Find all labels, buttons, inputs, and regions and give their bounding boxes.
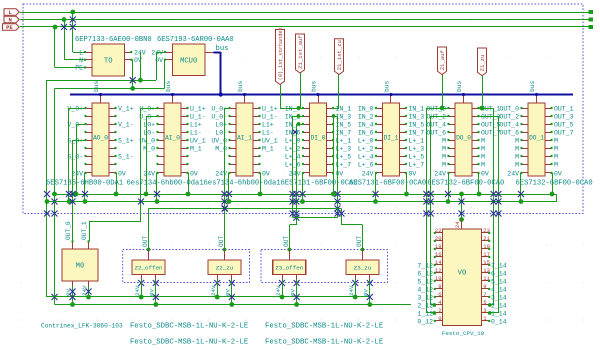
svg-text:U_1+: U_1+ bbox=[190, 105, 206, 112]
svg-text:2_14: 2_14 bbox=[491, 302, 507, 309]
svg-text:L+_3: L+_3 bbox=[409, 145, 425, 152]
svg-text:PE: PE bbox=[75, 65, 83, 72]
svg-text:0V: 0V bbox=[118, 170, 126, 177]
svg-text:V_1+: V_1+ bbox=[118, 105, 134, 112]
svg-text:9: 9 bbox=[483, 283, 486, 290]
svg-text:AI_1: AI_1 bbox=[237, 135, 252, 142]
svg-text:L0+: L0+ bbox=[143, 121, 155, 128]
svg-text:DO_0: DO_0 bbox=[456, 135, 471, 142]
svg-text:OUT_6: OUT_6 bbox=[499, 129, 519, 136]
svg-text:OUT_4: OUT_4 bbox=[499, 121, 519, 128]
svg-text:L+_5: L+_5 bbox=[409, 153, 425, 160]
svg-text:Z1_ist_zu: Z1_ist_zu bbox=[336, 40, 343, 70]
svg-text:2_12: 2_12 bbox=[417, 302, 433, 309]
svg-text:L1-: L1- bbox=[262, 129, 274, 136]
svg-text:6_14: 6_14 bbox=[491, 270, 507, 277]
svg-text:7_14: 7_14 bbox=[491, 262, 507, 269]
svg-text:M: M bbox=[481, 161, 485, 168]
svg-text:M: M bbox=[515, 153, 519, 160]
svg-text:6_12: 6_12 bbox=[417, 270, 433, 277]
svg-text:24V: 24V bbox=[289, 170, 301, 177]
svg-text:N: N bbox=[79, 57, 83, 64]
svg-text:OUT_0: OUT_0 bbox=[499, 105, 519, 112]
svg-text:2: 2 bbox=[438, 307, 441, 314]
svg-text:Z1_ist_auf: Z1_ist_auf bbox=[297, 35, 304, 69]
svg-text:Festo_CPV_10: Festo_CPV_10 bbox=[442, 330, 485, 337]
svg-text:Festo_SDBC-MSB-1L-NU-K-2-LE: Festo_SDBC-MSB-1L-NU-K-2-LE bbox=[130, 339, 248, 347]
svg-text:UV_0: UV_0 bbox=[139, 137, 155, 144]
svg-text:M: M bbox=[554, 153, 558, 160]
svg-text:OUT_6: OUT_6 bbox=[426, 129, 446, 136]
svg-text:M: M bbox=[442, 161, 446, 168]
svg-text:OUT: OUT bbox=[142, 236, 149, 247]
svg-text:M: M bbox=[515, 161, 519, 168]
svg-text:OUT_5: OUT_5 bbox=[554, 121, 574, 128]
svg-text:IN_7: IN_7 bbox=[409, 129, 425, 136]
svg-text:IN_6: IN_6 bbox=[358, 129, 374, 136]
svg-text:0V: 0V bbox=[481, 170, 489, 177]
svg-text:Z2_offen: Z2_offen bbox=[135, 265, 163, 272]
svg-text:24V: 24V bbox=[215, 170, 227, 177]
svg-text:Contrinex_LFK-3060-103: Contrinex_LFK-3060-103 bbox=[41, 323, 123, 330]
svg-text:S_0-: S_0- bbox=[67, 153, 83, 160]
svg-text:24: 24 bbox=[454, 221, 461, 228]
svg-text:M: M bbox=[554, 137, 558, 144]
svg-text:6es7134-6hb00-0da1: 6es7134-6hb00-0da1 bbox=[204, 179, 281, 187]
svg-text:23: 23 bbox=[483, 227, 490, 234]
svg-text:OUT: OUT bbox=[218, 236, 225, 247]
svg-text:24V: 24V bbox=[81, 285, 88, 296]
svg-text:bus: bus bbox=[456, 80, 463, 92]
svg-text:5_14: 5_14 bbox=[491, 278, 507, 285]
svg-text:M: M bbox=[554, 161, 558, 168]
svg-text:Z2_zu: Z2_zu bbox=[216, 265, 233, 272]
svg-text:IN_3: IN_3 bbox=[409, 113, 425, 120]
svg-text:OUT_4: OUT_4 bbox=[426, 121, 446, 128]
svg-text:24V: 24V bbox=[210, 285, 217, 296]
svg-text:OUT_7: OUT_7 bbox=[481, 129, 501, 136]
svg-text:L+_2: L+_2 bbox=[358, 145, 374, 152]
svg-text:bus: bus bbox=[383, 80, 390, 92]
svg-text:21: 21 bbox=[483, 235, 490, 242]
svg-text:6: 6 bbox=[438, 291, 441, 298]
svg-text:L+_0: L+_0 bbox=[358, 137, 374, 144]
svg-text:0_14: 0_14 bbox=[491, 318, 507, 325]
svg-text:24V: 24V bbox=[507, 170, 519, 177]
svg-text:M_0: M_0 bbox=[143, 145, 155, 152]
svg-text:0V: 0V bbox=[289, 289, 296, 296]
svg-text:6EP7133-6AE00-0BN0: 6EP7133-6AE00-0BN0 bbox=[75, 36, 152, 44]
svg-text:TO: TO bbox=[104, 58, 113, 66]
svg-text:M_1: M_1 bbox=[190, 145, 202, 152]
svg-text:M: M bbox=[515, 145, 519, 152]
svg-text:Z1_auf: Z1_auf bbox=[439, 50, 446, 70]
svg-text:4_12: 4_12 bbox=[417, 286, 433, 293]
svg-text:MCU0: MCU0 bbox=[180, 57, 197, 65]
svg-text:L0+: L0+ bbox=[215, 121, 227, 128]
svg-text:0V: 0V bbox=[262, 170, 270, 177]
svg-text:OUT: OUT bbox=[283, 236, 290, 247]
svg-text:V_1-: V_1- bbox=[118, 121, 134, 128]
svg-text:L: L bbox=[79, 49, 83, 56]
svg-text:IN_2: IN_2 bbox=[358, 113, 374, 120]
svg-text:U_1+: U_1+ bbox=[262, 105, 278, 112]
svg-text:M: M bbox=[442, 137, 446, 144]
svg-text:3_12: 3_12 bbox=[417, 294, 433, 301]
svg-text:bus: bus bbox=[237, 80, 244, 92]
svg-text:V0: V0 bbox=[458, 270, 467, 278]
svg-text:5_12: 5_12 bbox=[417, 278, 433, 285]
svg-text:11: 11 bbox=[483, 275, 490, 282]
svg-text:4_14: 4_14 bbox=[491, 286, 507, 293]
svg-text:IN_5: IN_5 bbox=[409, 121, 425, 128]
svg-text:L+_4: L+_4 bbox=[358, 153, 374, 160]
svg-text:OUT: OUT bbox=[356, 236, 363, 247]
svg-text:AO_0: AO_0 bbox=[93, 135, 108, 142]
svg-text:M_0: M_0 bbox=[215, 145, 227, 152]
svg-text:M: M bbox=[515, 137, 519, 144]
svg-text:5: 5 bbox=[483, 299, 486, 306]
svg-text:0V: 0V bbox=[554, 170, 562, 177]
svg-text:Z3_offen: Z3_offen bbox=[275, 265, 303, 272]
svg-text:10: 10 bbox=[435, 275, 442, 282]
svg-text:Festo_SDBC-MSB-1L-NU-K-2-LE: Festo_SDBC-MSB-1L-NU-K-2-LE bbox=[265, 323, 383, 331]
svg-text:DO_1: DO_1 bbox=[529, 135, 544, 142]
svg-text:S_1-: S_1- bbox=[118, 153, 134, 160]
svg-text:N: N bbox=[9, 17, 12, 24]
svg-text:0V: 0V bbox=[149, 289, 156, 296]
svg-text:OUT_2: OUT_2 bbox=[499, 113, 519, 120]
svg-text:L1+: L1+ bbox=[190, 121, 202, 128]
svg-text:12: 12 bbox=[435, 267, 442, 274]
svg-text:0V: 0V bbox=[336, 170, 344, 177]
svg-text:bus: bus bbox=[93, 80, 100, 92]
svg-text:OUT_5: OUT_5 bbox=[481, 121, 501, 128]
svg-text:24V: 24V bbox=[134, 285, 141, 296]
svg-text:UV_1: UV_1 bbox=[262, 137, 278, 144]
svg-text:bus: bus bbox=[310, 80, 317, 92]
svg-text:M_1: M_1 bbox=[262, 145, 274, 152]
svg-text:M: M bbox=[481, 145, 485, 152]
svg-text:20: 20 bbox=[435, 235, 442, 242]
svg-text:24V: 24V bbox=[434, 170, 446, 177]
svg-text:S_1+: S_1+ bbox=[118, 137, 134, 144]
svg-text:OUT_1: OUT_1 bbox=[81, 221, 88, 240]
svg-text:18: 18 bbox=[435, 243, 442, 250]
svg-text:Z1_zu: Z1_zu bbox=[479, 55, 486, 72]
svg-text:0V: 0V bbox=[190, 170, 198, 177]
svg-text:L+_6: L+_6 bbox=[358, 161, 374, 168]
svg-text:U_1-: U_1- bbox=[262, 113, 278, 120]
svg-text:6es7134-6hb00-0da1: 6es7134-6hb00-0da1 bbox=[127, 179, 204, 187]
svg-text:M: M bbox=[481, 137, 485, 144]
svg-text:19: 19 bbox=[483, 243, 490, 250]
svg-text:OUT_3: OUT_3 bbox=[554, 113, 574, 120]
svg-text:24V: 24V bbox=[275, 285, 282, 296]
svg-text:0V: 0V bbox=[225, 289, 232, 296]
svg-text:24V: 24V bbox=[143, 170, 155, 177]
svg-text:OUT_7: OUT_7 bbox=[554, 129, 574, 136]
svg-text:0V: 0V bbox=[363, 289, 370, 296]
svg-text:PE: PE bbox=[6, 24, 13, 31]
svg-text:7: 7 bbox=[483, 291, 486, 298]
svg-text:IN_4: IN_4 bbox=[358, 121, 374, 128]
svg-text:24V: 24V bbox=[134, 49, 146, 56]
svg-text:3_14: 3_14 bbox=[491, 294, 507, 301]
svg-text:6ES7193-6AR00-0AA0: 6ES7193-6AR00-0AA0 bbox=[157, 36, 234, 44]
svg-text:IN_1: IN_1 bbox=[409, 105, 425, 112]
svg-text:bus: bus bbox=[165, 80, 172, 92]
svg-text:0_12: 0_12 bbox=[417, 318, 433, 325]
svg-text:13: 13 bbox=[483, 267, 490, 274]
svg-text:0V: 0V bbox=[409, 170, 417, 177]
svg-text:24V: 24V bbox=[362, 170, 374, 177]
svg-text:Festo_SDBC-MSB-1L-NU-K-2-LE: Festo_SDBC-MSB-1L-NU-K-2-LE bbox=[130, 323, 248, 331]
svg-text:M: M bbox=[481, 153, 485, 160]
svg-text:Z3_zu: Z3_zu bbox=[354, 265, 371, 272]
svg-text:AI_0: AI_0 bbox=[165, 135, 180, 142]
svg-text:24V: 24V bbox=[71, 170, 83, 177]
svg-text:0V: 0V bbox=[65, 289, 72, 296]
svg-text:7_12: 7_12 bbox=[417, 262, 433, 269]
svg-text:Festo_SDBC-MSB-1L-NU-K-2-LE: Festo_SDBC-MSB-1L-NU-K-2-LE bbox=[265, 339, 383, 347]
svg-text:14: 14 bbox=[435, 259, 442, 266]
svg-text:15: 15 bbox=[483, 259, 490, 266]
svg-text:17: 17 bbox=[483, 251, 490, 258]
svg-text:6ES7132-6BF00-0CA0: 6ES7132-6BF00-0CA0 bbox=[516, 179, 593, 187]
svg-text:L+_7: L+_7 bbox=[409, 161, 425, 168]
svg-text:22: 22 bbox=[435, 227, 442, 234]
svg-text:M0: M0 bbox=[76, 263, 85, 271]
svg-text:U_1-: U_1- bbox=[190, 113, 206, 120]
svg-text:L+_1: L+_1 bbox=[409, 137, 425, 144]
svg-text:DI_0: DI_0 bbox=[311, 135, 326, 142]
svg-text:L1+: L1+ bbox=[262, 121, 274, 128]
svg-text:6ES7132-6BF00-0CA0: 6ES7132-6BF00-0CA0 bbox=[427, 179, 504, 187]
svg-text:6ES7131-6BF00-0CA0: 6ES7131-6BF00-0CA0 bbox=[349, 179, 426, 187]
svg-text:L1-: L1- bbox=[190, 129, 202, 136]
svg-text:0: 0 bbox=[438, 315, 441, 322]
svg-text:L0-: L0- bbox=[143, 129, 155, 136]
svg-text:OUT_0: OUT_0 bbox=[65, 221, 72, 240]
svg-text:3: 3 bbox=[483, 307, 486, 314]
svg-text:1_12: 1_12 bbox=[417, 310, 433, 317]
svg-text:1_14: 1_14 bbox=[491, 310, 507, 317]
svg-text:M: M bbox=[554, 145, 558, 152]
svg-text:16: 16 bbox=[435, 251, 442, 258]
svg-text:M: M bbox=[442, 153, 446, 160]
svg-text:UV_1: UV_1 bbox=[190, 137, 206, 144]
svg-text:bus: bus bbox=[529, 80, 536, 92]
svg-text:DI_1: DI_1 bbox=[384, 135, 399, 142]
svg-text:(0)_ist_vorhanden: (0)_ist_vorhanden bbox=[278, 27, 284, 80]
svg-text:24V: 24V bbox=[348, 285, 355, 296]
svg-text:M: M bbox=[442, 145, 446, 152]
svg-text:L0-: L0- bbox=[215, 129, 227, 136]
svg-text:IN_0: IN_0 bbox=[358, 105, 374, 112]
svg-text:8: 8 bbox=[438, 283, 441, 290]
svg-text:OUT_1: OUT_1 bbox=[554, 105, 574, 112]
